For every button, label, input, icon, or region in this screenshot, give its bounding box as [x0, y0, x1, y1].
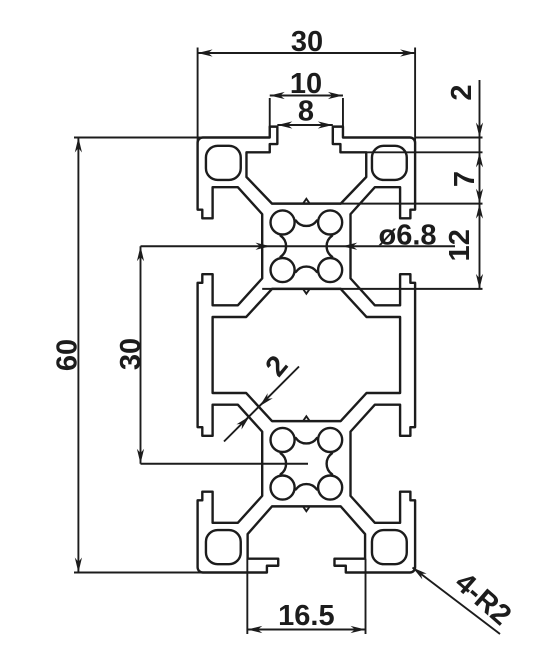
dim 16.5 dimension line: [247, 629, 365, 631]
corner hole bottom-right: [372, 530, 407, 564]
lower flower cavity: [271, 428, 343, 500]
corner hole bottom-left: [206, 530, 241, 564]
dim 60 dimension line: [77, 138, 79, 573]
svg-text:ø6.8: ø6.8: [378, 220, 436, 252]
leader 4-R2 line: [413, 568, 501, 635]
dim 10 dimension line: [270, 95, 343, 97]
svg-text:30: 30: [291, 26, 323, 58]
dim 30 left arrows: [137, 246, 144, 464]
svg-text:2: 2: [446, 84, 478, 100]
dim 12 right arrows: [476, 204, 483, 289]
dim 16.5 extension lines: [247, 559, 365, 634]
svg-text:2: 2: [260, 350, 295, 383]
dim 30 top arrows: [198, 49, 416, 56]
dim 2 middle arrows: [236, 393, 272, 429]
dim 16.5 arrows: [247, 626, 365, 633]
corner hole top-right: [372, 146, 407, 180]
dim 30 left dimension line: [140, 246, 142, 464]
dim 7 right arrows: [476, 189, 483, 204]
svg-text:60: 60: [52, 339, 84, 371]
right dims extension lines (top face, roof, boss top, boss bottom): [262, 138, 482, 289]
dim 30 top dimension line: [198, 52, 416, 54]
dim 30 top extension lines: [198, 48, 416, 145]
dim 8 dimension line: [277, 124, 332, 126]
dim 60 arrows: [75, 138, 82, 573]
middle cavity: [213, 289, 400, 421]
corner hole top-left: [206, 146, 241, 180]
svg-text:8: 8: [298, 96, 314, 128]
upper flower cavity: [271, 210, 343, 282]
dim 2 middle dimension line: [224, 367, 299, 442]
center teeth marks on boss walls: [303, 199, 310, 511]
svg-text:30: 30: [115, 338, 147, 370]
dim dia6.8 arrows: [255, 243, 357, 250]
dim 60 extension lines: [74, 138, 202, 573]
dim 10 arrows: [270, 92, 343, 99]
svg-text:12: 12: [444, 229, 476, 261]
profile outer outline with slots: [198, 127, 416, 573]
dim 2 right arrows: [476, 123, 483, 168]
dim 10 extension lines: [270, 98, 343, 128]
right dims dimension line: [479, 80, 481, 289]
dim 8 arrows: [277, 121, 332, 128]
svg-text:16.5: 16.5: [278, 600, 334, 632]
leader 4-R2 arrow: [413, 568, 427, 580]
dim 30 left extension/leader lines: [141, 246, 456, 464]
svg-text:7: 7: [449, 171, 481, 187]
